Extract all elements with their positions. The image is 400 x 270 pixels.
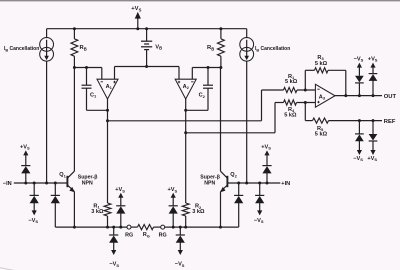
node dot A2out/C2 [184,109,187,112]
svg-text:−VS: −VS [353,156,363,162]
svg-text:+IN: +IN [281,181,290,187]
node dot R1 bottom [106,226,109,229]
scan artifact bottom-left corner [0,268,16,270]
svg-text:REF: REF [384,119,396,125]
node dot -IN current source [45,182,48,185]
wire: Q1 collector up to RB-left node [73,68,75,172]
resistor R3 5k feedback [304,70,306,90]
svg-text:−VS: −VS [28,218,38,224]
svg-text:RB: RB [207,45,214,51]
RG terminal circle (left) [127,225,131,229]
node dot out clamp 1 [358,94,361,97]
node dot RG-left +VS clamp [119,226,122,229]
node dot -IN clamp up [24,182,27,185]
resistor R2 3k [182,203,189,216]
node dot battery top [145,27,148,30]
node dot A2out line tap [184,131,187,134]
clamp diode -IN to -VS [33,183,35,195]
transistor Q1 super-beta NPN [66,176,68,187]
node dot A3 bottom input [304,101,307,104]
transistor Q2 super-beta NPN [226,176,228,187]
clamp diode RG-left to -VS [113,227,115,235]
+VS supply arrow (top) [137,17,139,29]
wire: A3 + input to REF line [304,103,306,121]
clamp diode RG-right to -VS [179,227,181,235]
wire: Q2 emitter down to RG line [220,192,222,228]
svg-text:A3: A3 [319,94,326,100]
svg-text:RB: RB [80,45,87,51]
current source IB cancellation (right) [246,29,248,39]
svg-text:IB Cancellation: IB Cancellation [255,46,290,52]
svg-text:VB: VB [155,44,162,50]
output wire to OUT [335,95,382,97]
svg-text:+VS: +VS [20,144,30,150]
capacitor C2 [207,68,209,86]
svg-text:Super-β: Super-β [78,174,98,180]
op-amp A2 [175,79,196,99]
resistor RB (left) [73,29,75,39]
node dot RB-right bottom [219,66,222,69]
svg-text:+VS: +VS [131,6,141,12]
node dot -IN diode to RG [54,182,57,185]
node dot A3 top input [304,89,307,92]
RG terminal circle (right) [161,225,165,229]
svg-text:Super-β: Super-β [200,174,220,180]
top supply rail wire [47,28,247,30]
node dot out clamp 2 [372,94,375,97]
clamp diode +IN to -VS [259,183,261,195]
svg-text:C2: C2 [199,93,206,99]
clamp diode to -VS below REF [358,121,360,134]
svg-text:C1: C1 [90,92,97,98]
svg-text:NPN: NPN [204,181,215,187]
svg-text:+VS: +VS [368,56,378,62]
resistor R1 5k (to A3 top input) [262,89,284,91]
node dot C2 top [207,66,210,69]
svg-text:RG: RG [159,232,167,238]
clamp diode to +VS below REF [372,121,374,134]
node dot RG-right +VS clamp [172,226,175,229]
svg-text:Q2: Q2 [230,172,237,178]
node dot RG-right -VS clamp [179,226,182,229]
node dot A1out line tap [106,119,109,122]
current source IB cancellation (left) [46,29,48,39]
svg-text:3 kΩ: 3 kΩ [192,209,205,215]
svg-text:−VS: −VS [175,262,185,268]
svg-text:IB Cancellation: IB Cancellation [4,46,39,52]
wire: A1 output column down to RG line [107,99,109,203]
wire: right RG line [165,226,239,228]
svg-text:OUT: OUT [384,94,397,100]
svg-text:+VS: +VS [168,187,178,193]
node dot +IN clamp down [258,182,261,185]
node dot battery bottom [145,65,148,68]
node dot +IN current source [245,182,248,185]
node dot +IN diode to RG [237,182,240,185]
svg-text:+VS: +VS [115,187,125,193]
node dot -IN clamp down [33,182,36,185]
node dot A1out/C1 [106,109,109,112]
node dot +IN clamp up [266,182,269,185]
wire: left input bus (RB/Q1 collector to A1 - input) [74,67,101,69]
node dot RB left top [73,27,76,30]
wire: right current source to +IN node [246,61,248,183]
wire: +IN node line [227,182,280,184]
svg-text:RG: RG [143,232,150,238]
resistor R5 5k (REF) [313,118,329,123]
svg-text:A2: A2 [183,84,190,90]
node dot ref clamp 1 [358,119,361,122]
wire: left current source to -IN node [46,61,48,183]
node dot C1 top [85,66,88,69]
node dot ref clamp 2 [372,119,375,122]
op-amp A1 [97,79,118,99]
wire: Q1 emitter down to RG line [73,192,75,228]
wire: left RG line [55,226,127,228]
wire: A2 output column down to RG line [185,99,187,203]
svg-text:5 kΩ: 5 kΩ [315,132,328,138]
diode +IN to RG line [238,183,240,195]
svg-text:5 kΩ: 5 kΩ [315,61,328,67]
scan border top edge [0,0,400,1]
wire: A1 output to A3 inverting input (via bend) [108,120,262,122]
wire: Q2 collector up to RB-right node [220,68,222,172]
node dot at +VS arrow [136,27,139,30]
svg-text:+VS: +VS [367,156,377,162]
svg-text:5 kΩ: 5 kΩ [285,79,298,85]
wire: A2 output to R4 (via bend) [186,132,275,134]
op-amp A3 [315,84,335,107]
node dot Q2 emitter at RG line [219,226,222,229]
svg-text:+VS: +VS [261,144,271,150]
svg-text:−IN: −IN [3,181,12,187]
wire: VB bus to A1 + input and A2 + input [115,66,180,68]
resistor R1 3k [104,203,111,216]
svg-text:NPN: NPN [82,181,93,187]
wire: right input bus (RB/Q2 collector to A2 - input) [192,67,221,69]
svg-text:RG: RG [125,232,133,238]
node dot RG-left -VS clamp [112,226,115,229]
resistor R4 5k (to A3 bottom input) [275,102,284,104]
node dot R2 bottom [184,226,187,229]
node dot RB-left bottom [73,66,76,69]
external gain resistor RG [131,226,137,228]
node dot Q1 emitter at RG line [73,226,76,229]
node dot feedback/output [344,94,347,97]
svg-text:−VS: −VS [109,262,119,268]
node dot RB right top [219,27,222,30]
svg-text:A1: A1 [106,84,113,90]
resistor RB (right) [220,29,222,39]
svg-text:Q1: Q1 [59,172,66,178]
diode -IN to RG line [54,183,56,195]
svg-text:3 kΩ: 3 kΩ [91,209,104,215]
svg-text:−VS: −VS [254,218,264,224]
svg-text:−VS: −VS [354,56,364,62]
capacitor C1 [86,68,88,86]
battery VB [146,29,148,42]
wire: -IN node line [14,182,68,184]
svg-text:5 kΩ: 5 kΩ [284,112,297,118]
